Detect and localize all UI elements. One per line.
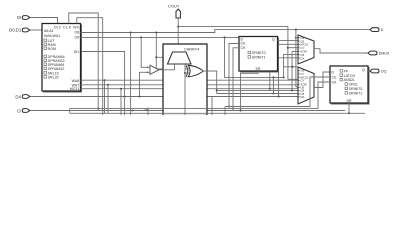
mux DFFMUX (298, 67, 314, 104)
svg-text:MC31: MC31 (70, 87, 80, 91)
wire O5 drop to DCY0 (141, 37, 144, 67)
wire D5FF Q to upper mux (278, 39, 299, 41)
output pin DMUX (368, 51, 377, 55)
node O5 under dots (272, 76, 274, 78)
wire DFF SR down (348, 103, 350, 113)
wire D5FF CE (229, 44, 239, 107)
svg-text:DI1: DI1 (74, 50, 80, 54)
wire DX main run (30, 96, 298, 98)
wire DX branch up to upper mux DX row (279, 58, 299, 97)
svg-text:DI: DI (17, 15, 21, 20)
svg-text:ROM: ROM (48, 47, 56, 51)
svg-text:OR2L: OR2L (349, 83, 358, 87)
input pin DX (15, 95, 30, 100)
DFF option FF (340, 69, 349, 73)
wire WA8 (81, 79, 299, 81)
wire WA7 (81, 84, 299, 86)
DFF option AND2L (340, 78, 355, 82)
wire MC31 route (81, 88, 299, 90)
svg-text:SRINIT0: SRINIT0 (349, 87, 363, 91)
wire XOR output (203, 71, 217, 94)
svg-text:O5: O5 (75, 36, 80, 40)
LUT option DPRAM64 (44, 55, 65, 59)
LUT option SPRAM64 (44, 63, 64, 67)
wire CY stub upper (287, 47, 289, 49)
svg-text:LATCH: LATCH (344, 74, 356, 78)
svg-text:SRINIT1: SRINIT1 (252, 56, 266, 60)
input pin CI (17, 109, 30, 114)
DFF option OR2L (345, 83, 358, 87)
wire O6 drop to crop (130, 33, 132, 116)
svg-text:CK: CK (332, 80, 338, 84)
wire O5 down branch to lower mux (272, 77, 274, 93)
svg-text:WA8: WA8 (72, 79, 80, 83)
wire D6:D1 to LUT A6:A1 (30, 29, 42, 31)
wire select stub (156, 56, 170, 58)
node CK/CI joint (232, 108, 234, 110)
wire DFF Q to DQ (368, 70, 370, 72)
wire DMUX out (314, 49, 368, 53)
LUT option SRL16 (44, 71, 59, 75)
wire MC31 stub upper (270, 43, 298, 45)
wire O5 run (81, 36, 240, 38)
wire O5 up branch to upper mux (284, 54, 298, 77)
LUT option DPRAM32 (44, 59, 65, 63)
next-row crop fragments (128, 110, 134, 112)
wire CLK rail to DFF CK (70, 82, 330, 109)
wire feed into lower mux row1 (284, 66, 298, 68)
node COUT / CY junction (177, 26, 179, 28)
input pin D6:D1 (9, 28, 30, 33)
wire CY run (178, 27, 288, 80)
wire bottom rail (70, 112, 365, 114)
input pin DI (17, 15, 30, 20)
wire carry from below (184, 75, 186, 116)
flip-flop DFF (330, 66, 369, 104)
LUT option SRL32 (44, 75, 59, 79)
mux DOUTMUX (298, 35, 314, 64)
svg-text:DX: DX (300, 95, 304, 99)
svg-text:CARRY4: CARRY4 (184, 48, 199, 52)
svg-text:AND2L: AND2L (344, 78, 356, 82)
wire DX drop at x212 (211, 97, 213, 116)
svg-text:O6: O6 (75, 31, 80, 35)
DFF option SRINIT0 (345, 87, 362, 91)
D5FF option SRINIT0 (248, 51, 266, 55)
D5FF option SRINIT1 (248, 56, 266, 60)
node DX tap x124.6 (124, 96, 126, 98)
wire O6 run with jog to D output (81, 30, 372, 33)
wire carry to xor (185, 72, 189, 74)
DFF option SRINIT1 (345, 91, 362, 95)
wire WE top loop (77, 18, 103, 115)
COUT pin (176, 9, 180, 18)
svg-text:DX: DX (300, 56, 304, 60)
svg-text:SRINIT1: SRINIT1 (349, 91, 363, 95)
wire D5FF SR down (241, 71, 259, 111)
output pin DQ (370, 69, 379, 73)
LUT option RAM (44, 43, 56, 47)
LUT block U1 (42, 24, 81, 92)
node O6 tap x156.3 (155, 32, 157, 34)
node carry xor tap (184, 72, 186, 74)
svg-text:DX: DX (15, 95, 21, 100)
svg-text:CI: CI (17, 109, 21, 114)
wire XOR riser to upper mux (291, 89, 293, 91)
output pin D (370, 28, 379, 32)
svg-text:DQ: DQ (381, 70, 387, 74)
wire CE rail to DFF CE (225, 77, 330, 107)
wire DX into DCY0 (139, 96, 141, 98)
wire O5 under-box route (225, 37, 284, 77)
wire CY stub lower (288, 78, 298, 80)
LUT option LUT (44, 39, 55, 43)
wire DX branch up to DI1 (81, 52, 125, 97)
LUT option ROM (44, 47, 56, 51)
node O6 tap x295.9 (295, 29, 297, 31)
LUT option SPRAM32 (44, 67, 64, 71)
svg-text:SR: SR (347, 99, 352, 103)
svg-text:SRL32: SRL32 (48, 75, 59, 79)
svg-text:SR: SR (256, 67, 261, 71)
svg-text:WA6:WA1: WA6:WA1 (44, 34, 60, 38)
wire DI to LUT DI2 top pin (30, 18, 58, 24)
wire O6 drop to carry select / xor (156, 33, 189, 70)
node CE bottom joint (228, 106, 230, 108)
svg-text:COUT: COUT (168, 4, 180, 9)
node DX tap x278.5 (278, 96, 280, 98)
svg-text:CK: CK (241, 46, 247, 50)
svg-text:CE: CE (332, 75, 338, 79)
wire CLK top loop (69, 13, 98, 109)
wire CI main run (30, 110, 345, 112)
svg-text:D: D (381, 28, 384, 32)
svg-text:DMUX: DMUX (379, 52, 390, 56)
svg-text:D6:D1: D6:D1 (9, 28, 22, 33)
DFF option LATCH (340, 74, 356, 78)
gate XORCY (185, 65, 204, 76)
svg-text:SPRAM32: SPRAM32 (48, 67, 65, 71)
node O5 tap x141.2 (140, 36, 142, 38)
mux MUXCY (168, 52, 192, 75)
node select tap (155, 56, 157, 58)
svg-text:SRINIT0: SRINIT0 (252, 51, 266, 55)
wire D5FF CK (233, 48, 239, 109)
svg-text:D: D (332, 70, 335, 74)
node O5 tap x224.5 (224, 36, 226, 38)
wire COUT vertical (177, 18, 179, 52)
svg-text:A6:A1: A6:A1 (44, 29, 54, 33)
mux DCY0 (141, 65, 175, 74)
wire O6 drop to mux rows (295, 30, 297, 87)
CARRY4 box (163, 44, 207, 116)
node O6 tap x130.6 (130, 32, 132, 34)
svg-text:DI2 CLK WE: DI2 CLK WE (54, 26, 80, 30)
svg-text:Q: Q (362, 68, 365, 72)
wire DFFMUX out to DFF D (314, 72, 330, 88)
svg-text:Q: Q (272, 37, 275, 41)
flip-flop D5FF (239, 37, 278, 72)
